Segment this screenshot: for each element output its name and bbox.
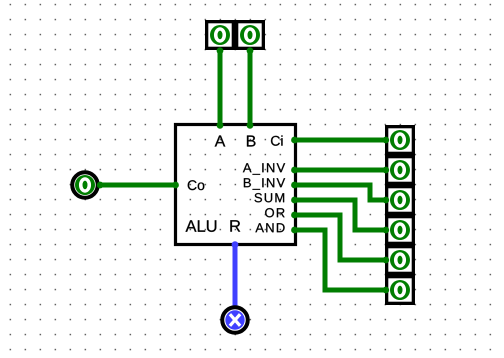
port Ci dot [291,137,298,144]
port B dot [247,122,254,129]
label B [247,135,256,146]
ALU port dots [172,122,298,234]
label SUM [255,193,285,202]
port A dot [217,122,224,129]
port R dot (blue) [232,241,239,248]
ALU subcircuit box U1 [176,125,296,245]
wire A_INV [295,168,386,173]
wire end blobs [97,47,389,293]
label ALU [186,220,217,232]
port Co dot [172,182,179,189]
input pin 2 (B source, value 0) [237,22,264,49]
wire R to X pin (blue) [233,245,238,306]
label Ci [271,135,283,145]
port OR dot [291,212,298,219]
wire OR [295,215,386,260]
output pin Co (value 0) [72,172,98,198]
output pin R (value X) [222,307,248,333]
wire Ci [295,138,386,143]
wire Co output pin to ALU [100,183,175,188]
label Co [188,180,205,190]
label AND [255,223,284,232]
label OR [265,208,284,217]
port SUM dot [291,197,298,204]
label A [215,135,226,146]
input pin 1 (A source, value 0) [207,22,234,49]
port AND dot [291,227,298,234]
label R [230,220,240,231]
input pin 8 (AND, value 0) [387,277,414,304]
ALU labels [186,135,286,232]
wire B_INV [295,185,386,200]
input pin 5 (B_INV, value 0) [387,187,414,214]
input pin 6 (SUM, value 0) [387,217,414,244]
input pin 3 (Ci, value 0) [387,127,414,154]
label B_INV [244,178,285,190]
port A_INV dot [291,167,298,174]
wire A top pin to ALU [218,51,223,125]
wire AND [295,230,386,290]
wire SUM [295,200,386,230]
port B_INV dot [291,182,298,189]
input pin 7 (OR, value 0) [387,247,414,274]
label A_INV [243,163,285,175]
wire B top pin to ALU [248,51,253,125]
input pin 4 (A_INV, value 0) [387,157,414,184]
